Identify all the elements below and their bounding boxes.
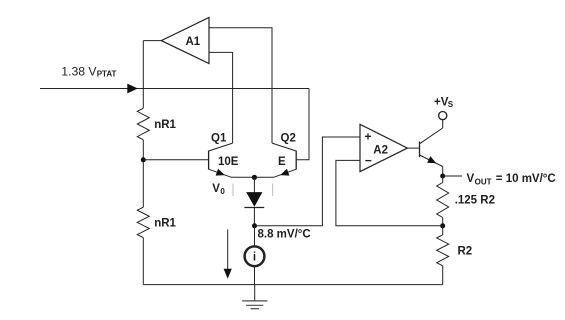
resistor nR1 lower [137,207,149,237]
terminal +VS [439,112,447,120]
ground [242,285,267,309]
svg-text:i: i [253,252,256,264]
wire A2 inverting input feedback to R2 divider tap [336,160,443,225]
label V0 [212,183,225,196]
op-amp A1 [161,18,209,64]
label VOUT = 10 mV/degC [467,173,556,186]
transistor Q1 [209,143,233,177]
wire left rail middle segment [142,140,144,207]
svg-text:V: V [212,183,220,195]
label +VS [434,96,454,109]
wire VOUT stub [443,175,462,177]
wire emitter node to diode anode [253,177,255,192]
transistor Q2 [272,143,296,177]
wire left rail upper segment [142,41,144,109]
svg-text:0: 0 [220,187,225,196]
resistor nR1 upper [137,108,149,140]
annotation current direction arrow [224,229,232,278]
op-amp A2 [360,124,407,171]
wire common emitter rail [231,176,274,178]
node common emitter junction dot [252,175,257,180]
svg-text:1.38 V: 1.38 V [61,64,97,78]
wire A1 upper input to Q2 collector [209,28,272,143]
wire faint mark left of diode [232,184,234,197]
svg-text:S: S [448,100,454,109]
node junction dot between nR1 resistors [141,157,146,162]
diode [244,192,264,207]
node 8.8 mV/degC junction dot [252,223,257,228]
wire R2 to ground rail [442,266,444,285]
svg-text:= 10 mV/°C: = 10 mV/°C [496,173,556,185]
current source i [245,246,265,266]
svg-text:.125 R2: .125 R2 [455,194,495,206]
node VOUT junction dot [440,174,445,179]
wire A2 output to Q3 base [407,147,419,149]
svg-text:8.8 mV/°C: 8.8 mV/°C [258,229,311,241]
svg-text:+V: +V [434,96,449,108]
svg-text:A1: A1 [185,36,200,48]
svg-text:E: E [278,156,286,168]
wire diode cathode to 8.8mV node [253,208,255,226]
svg-text:V: V [467,173,475,185]
wire current source to ground rail [254,267,256,285]
node divider tap junction dot [440,223,445,228]
wire 8.8mV node to current source [254,226,256,246]
svg-text:+: + [364,130,371,144]
svg-text:−: − [365,154,372,168]
wire faint mark right of diode [272,184,274,197]
resistor R2 [437,235,449,266]
svg-text:R2: R2 [458,246,473,258]
svg-text:10E: 10E [218,156,239,168]
wire input line 1.38 VPTAT to Q2 base branch [40,88,309,90]
wire divider tap to R2 [442,226,444,235]
wire A1 output to input node [143,40,161,42]
resistor .125 R2 [437,183,449,218]
label 1.38 VPTAT [61,64,116,78]
svg-text:OUT: OUT [475,177,492,186]
wire Q2 base to input line [296,89,309,160]
wire VOUT node to .125 R2 [442,176,444,183]
svg-text:Q2: Q2 [281,133,296,145]
svg-text:PTAT: PTAT [97,70,117,79]
transistor Q3 output NPN [420,120,443,176]
svg-text:nR1: nR1 [154,217,176,229]
svg-text:Q1: Q1 [211,133,227,145]
svg-text:A2: A2 [373,144,388,156]
wire Q1 base to nR1 junction [143,159,208,161]
wire ground rail [143,284,442,286]
wire .125 R2 to divider tap node [442,218,444,226]
wire left rail lower segment [142,238,144,285]
wire A1 lower input to Q1 collector [209,52,233,143]
wire 8.8mV node to A2 noninverting input [254,137,360,226]
svg-text:nR1: nR1 [154,119,176,131]
node input junction arrowhead [127,84,138,94]
